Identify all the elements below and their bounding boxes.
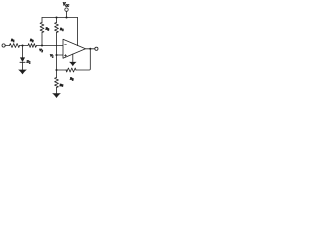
node V1 [55,54,57,56]
wire [22,46,24,58]
diode D1 [20,57,25,62]
svg-text:R4: R4 [59,27,64,32]
svg-text:R2: R2 [29,38,34,43]
svg-text:R6: R6 [59,83,64,88]
output terminal [95,47,98,50]
ground [52,93,61,98]
resistor R6 [56,70,58,78]
wire to non-inverting input [57,54,64,56]
svg-text:V2: V2 [39,48,43,53]
junction on rail at VCC [65,16,67,18]
node output junction [89,48,91,50]
resistor R2 [28,44,37,48]
ground [69,62,77,66]
wire [57,69,68,71]
junction V1 to feedback [55,69,57,71]
resistor R4 [56,18,58,23]
input terminal [2,44,5,47]
ground [18,70,27,75]
svg-text:D1: D1 [26,60,32,65]
VCC supply terminal [65,8,68,11]
wire feedback down [76,49,90,70]
wire top rail [42,17,78,19]
wire to inverting input [37,45,64,47]
wire op-amp negative supply pin [72,54,74,62]
wire output [86,48,95,50]
wire [20,45,29,47]
svg-text:VCC: VCC [63,1,69,7]
resistor R5 [66,68,76,72]
resistor R1 [10,44,20,48]
wire [22,62,24,69]
resistor R3 [41,18,43,23]
junction on rail at R4 [55,16,57,18]
node V2 [41,44,43,46]
wire VCC to op-amp positive supply pin [77,18,79,46]
svg-text:R1: R1 [10,38,15,43]
svg-text:V1: V1 [50,54,54,59]
wire [5,45,9,47]
svg-text:R3: R3 [45,26,50,31]
op-amp U1 [63,39,86,58]
svg-text:R5: R5 [69,76,74,81]
node junction after R1 [21,44,23,46]
